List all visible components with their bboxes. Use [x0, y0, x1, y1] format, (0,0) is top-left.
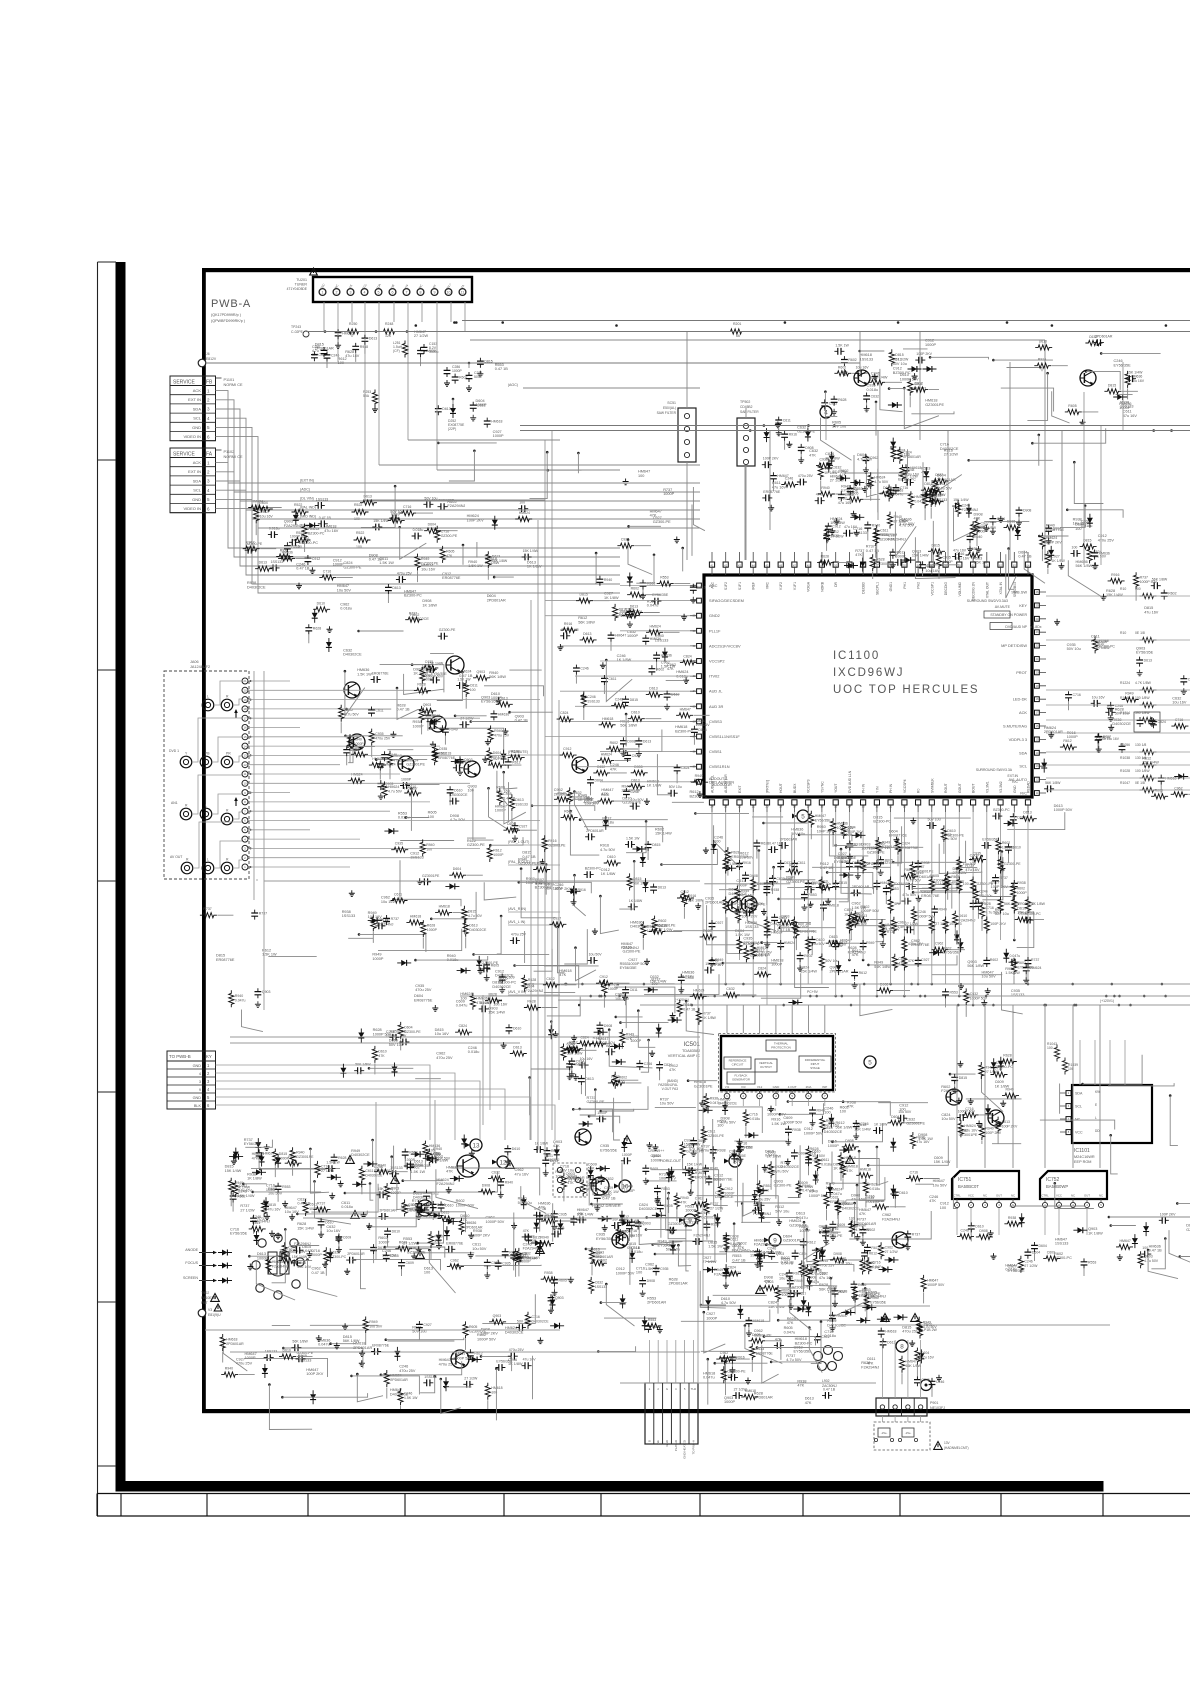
- svg-text:100: 100: [940, 1206, 946, 1210]
- svg-text:D815: D815: [441, 1211, 449, 1215]
- svg-text:2PD601AR: 2PD601AR: [487, 598, 506, 602]
- svg-text:4: 4: [1086, 1203, 1088, 1207]
- svg-text:15K 1/4W: 15K 1/4W: [800, 970, 817, 974]
- svg-text:47K: 47K: [523, 1229, 530, 1233]
- svg-text:SDA: SDA: [1075, 1092, 1083, 1096]
- svg-text:GND: GND: [665, 1440, 669, 1446]
- svg-text:27 1/2W: 27 1/2W: [464, 1376, 478, 1380]
- svg-text:2PD601AR: 2PD601AR: [566, 1176, 585, 1180]
- svg-text:D815: D815: [647, 925, 655, 929]
- svg-text:2PD601AR: 2PD601AR: [622, 789, 641, 793]
- svg-text:R1038: R1038: [1120, 756, 1130, 760]
- svg-text:C611: C611: [686, 1145, 694, 1149]
- svg-text:C935: C935: [395, 842, 403, 846]
- svg-text:1000P: 1000P: [663, 492, 674, 496]
- svg-text:10u 16V: 10u 16V: [1172, 701, 1187, 705]
- svg-text:Y IN: Y IN: [875, 786, 879, 793]
- svg-text:470u 25V: 470u 25V: [756, 1197, 772, 1201]
- svg-text:D610: D610: [607, 855, 615, 859]
- svg-text:1SS133: 1SS133: [860, 357, 874, 361]
- svg-text:R737: R737: [1140, 576, 1148, 580]
- svg-text:AS: AS: [348, 284, 353, 289]
- svg-text:HM618: HM618: [745, 1389, 756, 1393]
- svg-text:GZ300-PE: GZ300-PE: [707, 1134, 724, 1138]
- svg-text:(22P): (22P): [448, 427, 456, 431]
- svg-text:56K 1/8W: 56K 1/8W: [343, 1339, 360, 1343]
- svg-text:1K 1/8W: 1K 1/8W: [824, 471, 838, 475]
- svg-text:11: 11: [461, 291, 465, 295]
- svg-text:C632: C632: [595, 1280, 603, 1284]
- svg-text:18: 18: [1036, 698, 1039, 701]
- svg-text:R522: R522: [294, 503, 302, 507]
- svg-text:1: 1: [322, 291, 324, 295]
- svg-text:HM618: HM618: [885, 1330, 896, 1334]
- svg-text:D815: D815: [839, 881, 847, 885]
- svg-text:D613: D613: [513, 1046, 521, 1050]
- svg-text:R949: R949: [1125, 692, 1133, 696]
- svg-text:1SS133: 1SS133: [1120, 405, 1134, 409]
- svg-text:D604: D604: [428, 523, 436, 527]
- svg-text:10u 50V: 10u 50V: [933, 1183, 948, 1187]
- svg-text:C824: C824: [758, 966, 766, 970]
- svg-text:1SS133: 1SS133: [1055, 1242, 1069, 1246]
- svg-text:DECDIG: DECDIG: [944, 582, 948, 596]
- svg-text:R940: R940: [894, 515, 902, 519]
- svg-text:L: L: [207, 695, 209, 699]
- svg-text:TUNER: TUNER: [295, 283, 308, 287]
- svg-text:R605: R605: [951, 875, 959, 879]
- svg-text:0.047u: 0.047u: [647, 604, 659, 608]
- svg-text:2PD601AR: 2PD601AR: [1044, 730, 1063, 734]
- svg-text:56K 1/8W: 56K 1/8W: [836, 1125, 853, 1129]
- svg-text:PLAYER: PLAYER: [674, 1440, 678, 1451]
- svg-text:0.018u: 0.018u: [821, 1162, 832, 1166]
- svg-text:F2A294NJ: F2A294NJ: [284, 524, 302, 528]
- svg-text:R628: R628: [313, 626, 321, 630]
- svg-text:R605: R605: [469, 1325, 477, 1329]
- svg-text:R612: R612: [1102, 736, 1110, 740]
- svg-text:EEP ROM: EEP ROM: [1074, 1160, 1091, 1164]
- svg-text:VCC: VCC: [968, 1194, 974, 1198]
- svg-text:4.7u 50V: 4.7u 50V: [775, 1169, 790, 1173]
- svg-text:1.5K 1W: 1.5K 1W: [918, 1137, 933, 1141]
- svg-text:L: L: [1095, 1116, 1097, 1120]
- svg-text:R628: R628: [528, 978, 536, 982]
- svg-text:1.5K 1W: 1.5K 1W: [626, 836, 640, 840]
- svg-text:UOC TOP HERCULES: UOC TOP HERCULES: [833, 684, 979, 696]
- svg-text:Q903: Q903: [493, 1314, 502, 1318]
- svg-text:DECDIG 2N: DECDIG 2N: [972, 581, 976, 600]
- svg-text:34: 34: [693, 690, 696, 693]
- svg-text:Q903: Q903: [477, 670, 486, 674]
- svg-text:1000P: 1000P: [495, 809, 506, 813]
- svg-text:10u 50V: 10u 50V: [982, 975, 997, 979]
- svg-text:D815: D815: [630, 698, 638, 702]
- svg-text:D604: D604: [1039, 1244, 1047, 1248]
- svg-text:GZ3001PE: GZ3001PE: [422, 874, 440, 878]
- svg-text:C611: C611: [365, 1169, 373, 1173]
- svg-text:4: 4: [207, 416, 210, 421]
- svg-text:R: R: [226, 858, 229, 862]
- svg-text:C632: C632: [522, 1251, 530, 1255]
- svg-text:3: 3: [207, 407, 210, 412]
- svg-text:27 1/2W: 27 1/2W: [403, 1241, 418, 1245]
- svg-text:1000P 50V: 1000P 50V: [616, 1271, 635, 1275]
- svg-text:47K: 47K: [855, 553, 862, 557]
- svg-text:1000P: 1000P: [685, 1209, 696, 1213]
- svg-text:AN1: AN1: [171, 801, 178, 805]
- svg-text:13: 13: [472, 1143, 480, 1150]
- svg-text:SCL: SCL: [1019, 764, 1027, 769]
- svg-text:27 1/2W: 27 1/2W: [1024, 1264, 1038, 1268]
- svg-text:(AV1_L IN): (AV1_L IN): [508, 920, 525, 924]
- svg-text:1000P: 1000P: [427, 928, 438, 932]
- svg-text:10u 16V: 10u 16V: [955, 556, 970, 560]
- svg-text:2: 2: [742, 1094, 744, 1098]
- svg-text:INP: INP: [822, 1085, 827, 1089]
- svg-text:EY56/35E: EY56/35E: [1114, 363, 1132, 367]
- svg-text:0.47 1B: 0.47 1B: [515, 719, 529, 723]
- svg-text:1000P 50V: 1000P 50V: [804, 1131, 823, 1135]
- svg-text:0E 1/8: 0E 1/8: [1135, 631, 1145, 635]
- svg-text:C246: C246: [580, 667, 588, 671]
- svg-text:D613: D613: [1023, 811, 1031, 815]
- svg-text:C716: C716: [965, 1107, 973, 1111]
- svg-text:DVD 1: DVD 1: [169, 749, 179, 753]
- svg-text:(MID IND): (MID IND): [300, 515, 316, 519]
- svg-text:1SS133: 1SS133: [587, 700, 600, 704]
- svg-text:C935: C935: [943, 556, 951, 560]
- svg-text:4.7u 50V: 4.7u 50V: [721, 1301, 737, 1305]
- svg-text:16: 16: [243, 726, 247, 730]
- svg-text:HM624: HM624: [1046, 536, 1057, 540]
- svg-text:FOCUS: FOCUS: [185, 1261, 198, 1265]
- svg-text:YOUT: YOUT: [834, 784, 838, 793]
- svg-text:R940: R940: [985, 1127, 993, 1131]
- svg-text:C246: C246: [587, 695, 595, 699]
- svg-text:1000P: 1000P: [622, 1153, 633, 1157]
- svg-text:PWB-A: PWB-A: [211, 298, 251, 310]
- svg-text:NE103FJ: NE103FJ: [930, 1406, 945, 1410]
- svg-text:SCL: SCL: [193, 416, 202, 421]
- svg-text:2PD601AR: 2PD601AR: [226, 1342, 244, 1346]
- svg-text:C716: C716: [323, 569, 331, 573]
- svg-text:56K 1/8W: 56K 1/8W: [292, 1340, 308, 1344]
- svg-text:EY56/35E: EY56/35E: [894, 882, 910, 886]
- svg-text:SMB.SW: SMB.SW: [1011, 590, 1027, 595]
- svg-text:R949: R949: [882, 841, 890, 845]
- svg-text:EY56/35E: EY56/35E: [1136, 651, 1154, 655]
- svg-text:PR: PR: [226, 752, 231, 756]
- svg-text:F2A294NJ: F2A294NJ: [272, 1264, 289, 1268]
- svg-text:4.7u 50V: 4.7u 50V: [721, 1121, 737, 1125]
- svg-text:27 1/2W: 27 1/2W: [240, 1208, 255, 1212]
- svg-text:27 1/2W: 27 1/2W: [831, 534, 845, 538]
- svg-text:L: L: [205, 804, 207, 808]
- svg-text:5: 5: [801, 814, 805, 821]
- svg-text:D40302CE: D40302CE: [505, 1330, 524, 1334]
- svg-text:C246: C246: [615, 698, 623, 702]
- svg-text:27 1/2W: 27 1/2W: [830, 479, 845, 483]
- svg-text:18: 18: [243, 707, 247, 711]
- svg-text:R949: R949: [626, 1033, 634, 1037]
- svg-text:C824: C824: [1158, 720, 1166, 724]
- svg-text:1000P: 1000P: [597, 1111, 608, 1115]
- svg-text:EXT IN: EXT IN: [188, 397, 201, 402]
- svg-text:SDA: SDA: [193, 478, 202, 483]
- svg-text:FA10ENJ: FA10ENJ: [201, 1296, 216, 1300]
- svg-text:100 1/8W: 100 1/8W: [1135, 769, 1150, 773]
- svg-text:47K: 47K: [252, 1156, 259, 1160]
- svg-text:4.7u 50V: 4.7u 50V: [468, 914, 483, 918]
- svg-text:ER08776E: ER08776E: [372, 1344, 390, 1348]
- svg-text:6: 6: [808, 1094, 810, 1098]
- svg-text:0.47 1B: 0.47 1B: [312, 1271, 326, 1275]
- svg-text:47K: 47K: [787, 1321, 794, 1325]
- svg-text:IREF: IREF: [752, 582, 756, 590]
- svg-text:38: 38: [693, 751, 696, 754]
- svg-text:HM647: HM647: [906, 1359, 917, 1363]
- svg-text:VI1: VI1: [725, 1085, 730, 1089]
- svg-text:0.047u: 0.047u: [1010, 954, 1021, 958]
- svg-text:AUDOUT1R: AUDOUT1R: [724, 774, 728, 793]
- svg-text:50V 10u: 50V 10u: [1067, 647, 1081, 651]
- svg-text:4: 4: [199, 1072, 201, 1076]
- svg-text:10u 50V: 10u 50V: [941, 1117, 956, 1121]
- svg-text:VRC: VRC: [766, 581, 770, 589]
- svg-text:1.5K 1W: 1.5K 1W: [1005, 971, 1020, 975]
- svg-text:10u 16V: 10u 16V: [285, 1210, 300, 1214]
- svg-text:D610: D610: [959, 914, 967, 918]
- svg-text:R737: R737: [702, 1011, 710, 1015]
- svg-text:1000P: 1000P: [425, 714, 436, 718]
- svg-text:470u 25V: 470u 25V: [399, 1369, 416, 1373]
- svg-text:1000P 50V: 1000P 50V: [927, 1283, 945, 1287]
- svg-text:GZ300-PE: GZ300-PE: [441, 534, 458, 538]
- svg-text:C912: C912: [563, 747, 571, 751]
- svg-text:100: 100: [460, 996, 466, 1000]
- svg-text:15K 1/4W: 15K 1/4W: [912, 554, 929, 558]
- svg-text:(AV1_V IN): (AV1_V IN): [508, 990, 526, 994]
- svg-text:C824: C824: [728, 1265, 736, 1269]
- svg-text:HM618: HM618: [439, 905, 450, 909]
- svg-text:1: 1: [1044, 1203, 1046, 1207]
- svg-text:10u 16V: 10u 16V: [925, 569, 940, 573]
- svg-text:47K: 47K: [797, 1384, 804, 1388]
- svg-text:R628: R628: [876, 558, 884, 562]
- svg-text:15K 1/4W: 15K 1/4W: [854, 1127, 871, 1131]
- svg-text:R1028: R1028: [1120, 769, 1130, 773]
- svg-text:1.5K 1W: 1.5K 1W: [661, 665, 676, 669]
- svg-text:6: 6: [207, 434, 210, 439]
- svg-text:D610: D610: [445, 1203, 453, 1207]
- svg-text:SC51: SC51: [667, 401, 676, 405]
- svg-text:V-OUT PA3: V-OUT PA3: [662, 1087, 679, 1091]
- svg-text:SCL: SCL: [193, 488, 202, 493]
- svg-text:AUDOUT1R: AUDOUT1R: [712, 783, 732, 787]
- svg-text:100P 2KV: 100P 2KV: [473, 1233, 490, 1237]
- svg-text:R940: R940: [225, 1367, 233, 1371]
- svg-text:BT: BT: [432, 284, 437, 289]
- svg-text:NORB: NORB: [820, 581, 824, 592]
- svg-text:47K: 47K: [626, 1037, 633, 1041]
- svg-text:ASC: ASC: [319, 282, 326, 290]
- svg-text:C609: C609: [800, 925, 808, 929]
- svg-text:HM647: HM647: [680, 707, 691, 711]
- svg-text:ER08776E: ER08776E: [414, 998, 433, 1002]
- svg-text:D610: D610: [816, 938, 824, 942]
- svg-text:R602: R602: [867, 1228, 875, 1232]
- svg-text:SECPL1: SECPL1: [875, 582, 879, 595]
- svg-text:10u 16V: 10u 16V: [326, 1229, 341, 1233]
- svg-text:F2A294NJ: F2A294NJ: [447, 504, 465, 508]
- svg-text:2PD601AR: 2PD601AR: [596, 1255, 614, 1259]
- svg-text:R949: R949: [802, 1184, 810, 1188]
- svg-text:C632: C632: [871, 395, 879, 399]
- svg-text:47K: 47K: [577, 1212, 584, 1216]
- svg-text:D815: D815: [924, 482, 932, 486]
- svg-text:D613: D613: [469, 923, 477, 927]
- svg-text:D613: D613: [887, 1340, 895, 1344]
- svg-text:IXCD96WJ: IXCD96WJ: [833, 667, 904, 679]
- svg-text:EY56/35E: EY56/35E: [982, 837, 998, 841]
- svg-text:HM624: HM624: [351, 773, 362, 777]
- svg-text:C962: C962: [935, 942, 943, 946]
- svg-text:1: 1: [207, 388, 210, 393]
- svg-text:EXT IN: EXT IN: [188, 469, 201, 474]
- svg-text:1K 1/8W: 1K 1/8W: [527, 565, 542, 569]
- svg-text:R938: R938: [717, 1148, 725, 1152]
- svg-text:100: 100: [555, 1174, 561, 1178]
- svg-text:C632: C632: [492, 1171, 500, 1175]
- svg-text:D815: D815: [932, 543, 940, 547]
- svg-text:SURROUND SW/V3.3A: SURROUND SW/V3.3A: [976, 768, 1013, 772]
- svg-text:R940: R940: [505, 1181, 513, 1185]
- svg-text:56K 1/8W: 56K 1/8W: [967, 964, 984, 968]
- svg-text:1000P: 1000P: [413, 724, 424, 728]
- svg-text:50V 10u: 50V 10u: [560, 1169, 574, 1173]
- svg-text:C824: C824: [902, 841, 910, 845]
- svg-text:GZ300-PE: GZ300-PE: [623, 950, 641, 954]
- svg-text:1K 1/8W: 1K 1/8W: [535, 1142, 549, 1146]
- svg-text:J6: J6: [206, 352, 210, 356]
- svg-text:1000P: 1000P: [799, 1229, 810, 1233]
- svg-text:C246: C246: [644, 1062, 652, 1066]
- svg-text:1.5K 1W: 1.5K 1W: [457, 678, 471, 682]
- svg-text:6: 6: [207, 506, 210, 511]
- svg-text:R737: R737: [203, 907, 211, 911]
- svg-text:ER08776E: ER08776E: [372, 672, 390, 676]
- svg-text:Q903: Q903: [391, 1187, 400, 1191]
- svg-text:AUDOUT1L: AUDOUT1L: [711, 775, 715, 793]
- svg-text:1.5K 1W: 1.5K 1W: [604, 1190, 619, 1194]
- svg-text:R737: R737: [259, 912, 267, 916]
- svg-text:GZ3001PE: GZ3001PE: [668, 1222, 686, 1226]
- svg-text:6: 6: [207, 1103, 210, 1108]
- svg-text:P1B 2W: P1B 2W: [924, 1328, 938, 1332]
- svg-text:R938: R938: [544, 1271, 552, 1275]
- svg-text:10u 50V: 10u 50V: [337, 588, 352, 592]
- svg-text:3: 3: [207, 1079, 210, 1084]
- svg-text:D40302CE: D40302CE: [824, 1130, 843, 1134]
- svg-text:TDA8358J: TDA8358J: [682, 1049, 700, 1053]
- svg-text:2PD601AR: 2PD601AR: [347, 1252, 365, 1256]
- svg-text:EXT.IN: EXT.IN: [1007, 774, 1018, 778]
- svg-text:47K: 47K: [650, 514, 657, 518]
- svg-text:Q903: Q903: [423, 703, 432, 707]
- svg-text:6: 6: [1068, 1104, 1070, 1108]
- svg-text:R612: R612: [831, 530, 839, 534]
- svg-text:390 1/8W: 390 1/8W: [1135, 711, 1150, 715]
- svg-text:13: 13: [1036, 765, 1039, 768]
- svg-text:C927: C927: [423, 1323, 431, 1327]
- svg-text:10u 50V: 10u 50V: [898, 1110, 912, 1114]
- svg-text:470u 25V: 470u 25V: [1098, 538, 1115, 542]
- svg-text:B: B: [647, 1440, 651, 1442]
- svg-text:R938: R938: [710, 1097, 718, 1101]
- svg-text:V12: V12: [757, 1085, 763, 1089]
- svg-text:R628: R628: [527, 1000, 535, 1004]
- svg-text:R737: R737: [912, 1233, 920, 1237]
- svg-text:V1.8Dx: V1.8Dx: [1030, 625, 1042, 629]
- svg-text:GND: GND: [192, 497, 201, 502]
- svg-text:1000P: 1000P: [493, 853, 504, 857]
- svg-text:Q903: Q903: [596, 1250, 605, 1254]
- svg-text:1000P 50V: 1000P 50V: [426, 675, 444, 679]
- svg-text:S1F1: S1F1: [738, 582, 742, 590]
- svg-text:C912: C912: [312, 557, 320, 561]
- svg-text:16: 16: [1036, 725, 1039, 728]
- svg-text:C824: C824: [683, 654, 691, 658]
- svg-text:5: 5: [378, 291, 380, 295]
- svg-text:R628: R628: [1003, 1054, 1011, 1058]
- svg-text:10u 16V: 10u 16V: [421, 568, 436, 572]
- svg-text:D613: D613: [515, 798, 523, 802]
- svg-text:C927: C927: [921, 958, 929, 962]
- svg-text:HM624: HM624: [601, 752, 612, 756]
- svg-text:56K 1/8W: 56K 1/8W: [620, 724, 637, 728]
- svg-text:0.047u: 0.047u: [456, 1004, 468, 1008]
- svg-text:AV-MUTE: AV-MUTE: [995, 605, 1011, 609]
- svg-text:2PD601AR: 2PD601AR: [379, 1208, 397, 1212]
- svg-text:5: 5: [207, 1095, 210, 1100]
- svg-text:R628: R628: [761, 842, 769, 846]
- svg-text:R916: R916: [789, 433, 797, 437]
- svg-text:R602: R602: [601, 793, 609, 797]
- svg-text:DVD/AUD NP: DVD/AUD NP: [1005, 625, 1027, 629]
- svg-text:R940: R940: [435, 1235, 443, 1239]
- svg-text:4.7K 1/8W: 4.7K 1/8W: [1135, 681, 1152, 685]
- svg-text:2PD601AR: 2PD601AR: [586, 829, 604, 833]
- svg-text:D613: D613: [1002, 1120, 1010, 1124]
- svg-text:C632: C632: [605, 1177, 613, 1181]
- svg-text:C632: C632: [546, 977, 554, 981]
- svg-text:R612: R612: [1063, 739, 1071, 743]
- svg-text:25: 25: [1036, 604, 1039, 607]
- svg-text:R0: R0: [917, 789, 921, 793]
- svg-text:R553: R553: [744, 1145, 752, 1149]
- svg-text:2PD601AR: 2PD601AR: [780, 837, 798, 841]
- svg-text:C912: C912: [724, 1187, 732, 1191]
- svg-text:9: 9: [773, 1238, 777, 1245]
- svg-text:5: 5: [868, 1060, 872, 1067]
- svg-text:D613: D613: [259, 561, 267, 565]
- svg-text:R602: R602: [848, 358, 856, 362]
- svg-text:0.47 1B: 0.47 1B: [627, 1246, 641, 1250]
- svg-text:R602: R602: [564, 809, 572, 813]
- svg-text:NC: NC: [1099, 1194, 1103, 1198]
- svg-text:R628: R628: [838, 398, 846, 402]
